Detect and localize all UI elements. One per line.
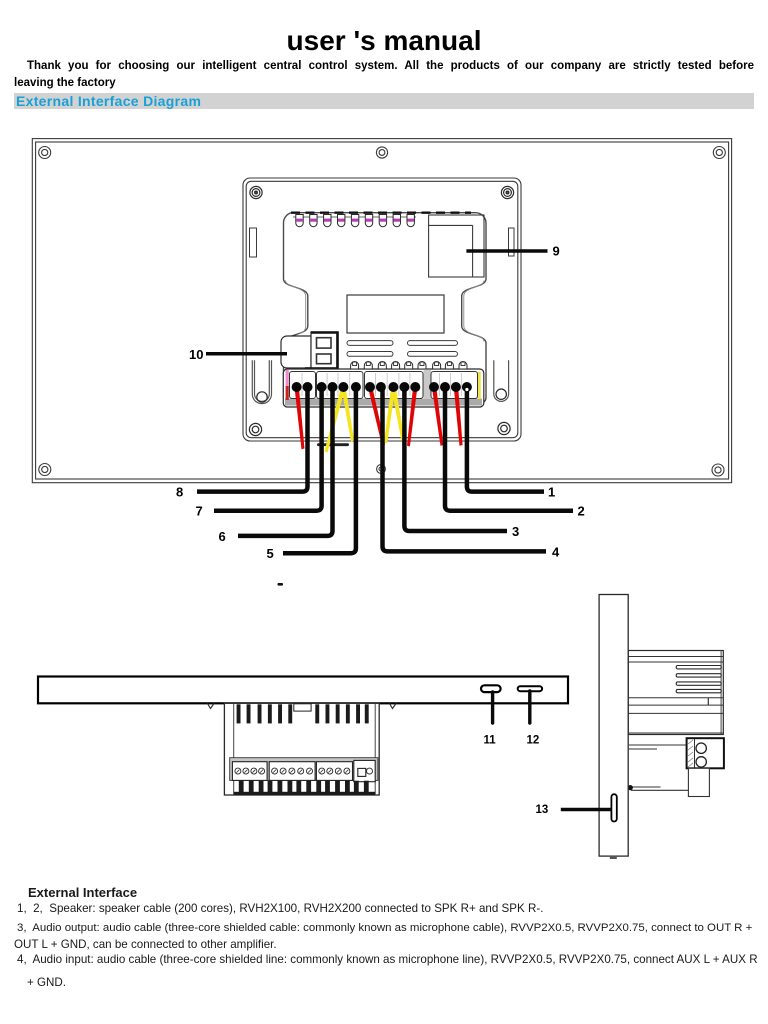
header pin row (9 pins with magenta bands) — [296, 215, 415, 227]
wire yellow terminal9 right strand — [391, 387, 404, 441]
outer wall panel — [32, 139, 731, 483]
bottom view: comb center key block — [294, 704, 311, 711]
item 3 audio output line 2 — [14, 938, 277, 951]
vent slot row2 right — [408, 352, 458, 357]
plate screw top-right — [501, 186, 513, 198]
wire yellow terminal9 left strand — [384, 387, 396, 444]
callout line 9 — [466, 249, 547, 253]
item 4 audio input line 1 — [17, 953, 758, 966]
bottom view: terminal screw slots — [236, 770, 348, 773]
side view: lower body lines — [629, 733, 723, 749]
terminal strip base — [283, 369, 484, 407]
section heading bar — [14, 93, 754, 109]
bottom text: External Interface heading — [28, 885, 137, 900]
component 9 box — [429, 215, 484, 277]
bottom view: top connector comb — [237, 704, 369, 723]
contour notch pocket right — [464, 281, 484, 342]
bottom view: right mounting hook — [390, 704, 397, 709]
bottom view: left mounting hook — [208, 704, 215, 709]
bottom view: terminal row base — [230, 758, 378, 781]
item 1,2 speaker — [17, 902, 543, 915]
side view: terminal screw upper — [696, 743, 706, 753]
bottom view: terminal screws — [235, 768, 373, 774]
terminal sub-block A — [290, 372, 316, 399]
svg-text:11: 11 — [484, 735, 497, 747]
side view: lower housing — [688, 768, 709, 796]
intro paragraph line 1 — [14, 60, 754, 72]
item 3 audio output line 1 — [17, 922, 752, 934]
terminal strip lower gray band — [285, 399, 482, 406]
mounting plate — [243, 178, 521, 441]
side view: wall panel — [599, 595, 628, 857]
screw 13 capsule — [611, 794, 616, 821]
bottom view: terminal block 3 — [316, 762, 352, 781]
svg-text:6: 6 — [219, 529, 226, 544]
block 10 socket square upper — [317, 338, 332, 348]
side view: terminal screw lower — [696, 757, 706, 767]
block 10 socket square lower — [317, 354, 332, 364]
wire yellow terminal5 right strand — [341, 387, 354, 442]
strip yellow lead — [478, 372, 481, 399]
bottom view: module bottom thick edge — [234, 792, 376, 795]
side view: terminal block — [687, 738, 724, 768]
header pins above strip — [351, 362, 467, 370]
terminal dots row — [292, 382, 461, 392]
panel screw top-middle — [376, 147, 387, 158]
central cutout rectangle — [347, 295, 444, 333]
wire yellow terminal5 left strand — [325, 387, 346, 453]
terminal separators — [302, 373, 461, 396]
side view: panel bottom tab — [610, 856, 617, 859]
contour inner top line — [293, 216, 416, 218]
wire red terminal14 — [454, 387, 463, 446]
strip pink lead — [286, 370, 289, 387]
svg-text:12: 12 — [527, 735, 540, 747]
side view: body inner right edge — [720, 651, 722, 735]
callout line 10 — [206, 352, 287, 356]
plate keyhole bracket right — [494, 360, 509, 401]
bottom view: chassis inner edges — [234, 703, 376, 795]
bottom view: terminal block 1 — [232, 762, 267, 781]
plate bottom clip tab — [317, 443, 349, 446]
button 11 stem — [491, 692, 494, 723]
panel screw bottom-right — [712, 464, 724, 476]
block 10 thick edges — [305, 333, 338, 369]
side view: terminal block clamp edge — [694, 739, 696, 768]
contour notch pocket left — [286, 281, 306, 334]
svg-text:4: 4 — [552, 544, 560, 559]
pin magenta bands — [296, 219, 414, 222]
bottom view: lower wire-entry comb — [239, 781, 369, 793]
svg-text:1: 1 — [548, 485, 555, 500]
plate slot right — [509, 228, 515, 256]
terminal dot 15 (ring) — [462, 382, 472, 392]
svg-text:13: 13 — [536, 804, 549, 816]
plate keyhole bracket left — [252, 360, 271, 403]
side view: terminal block hatch — [688, 740, 693, 767]
panel screw top-left — [39, 147, 51, 159]
callout line 13 — [561, 808, 612, 812]
rear cover contour with side notches — [283, 213, 486, 404]
touch button 11 — [481, 685, 501, 692]
terminal sub-block D — [431, 372, 478, 399]
bottom view: terminal block 4 — [354, 760, 375, 781]
bottom view: terminal block 2 — [269, 762, 315, 781]
stray dash mark — [278, 583, 284, 586]
terminal sub-block C — [365, 372, 424, 399]
svg-text:9: 9 — [553, 244, 560, 259]
svg-text:10: 10 — [189, 347, 203, 362]
plate screw bottom-left — [249, 423, 261, 435]
item 4 audio input line 2 — [27, 976, 66, 989]
bottom view: module chassis — [224, 703, 379, 795]
wire black terminal6 to callout 5 — [283, 387, 356, 554]
svg-text:3: 3 — [512, 524, 519, 539]
wire black terminal10 to callout 3 — [404, 387, 507, 532]
side view: seam tick — [707, 698, 709, 705]
wire black terminal4 to callout 6 — [238, 387, 333, 536]
panel screw bottom-middle — [377, 465, 386, 474]
wire black terminal8 to callout 4 — [383, 387, 547, 552]
bottom view: block4 square contact — [358, 768, 366, 776]
side view: catch bump — [628, 785, 633, 790]
wire black terminal13 to callout 2 — [445, 387, 573, 511]
title — [0, 25, 768, 57]
wire black terminal3 to callout 7 — [214, 387, 322, 511]
side view: lower outline — [629, 787, 688, 790]
side view: module body — [628, 651, 723, 735]
wire black terminal15 to callout 1 — [467, 387, 544, 492]
terminal sub-block B — [317, 372, 364, 399]
connector block 10 right half — [311, 332, 337, 368]
wire red terminal7 — [368, 387, 385, 446]
side view: body horizontal seams — [628, 657, 723, 714]
side view: heatsink fins — [676, 666, 721, 693]
wire red terminal1 — [294, 387, 304, 450]
svg-text:5: 5 — [267, 546, 274, 561]
wire red terminal12 — [432, 387, 444, 446]
plate slot left — [250, 228, 257, 257]
connector block 10 left half — [281, 336, 311, 368]
bottom view: front glass bar — [38, 677, 568, 704]
plate screw bottom-right — [498, 422, 510, 434]
svg-text:7: 7 — [196, 504, 203, 519]
vent slot row2 left — [347, 352, 393, 357]
intro paragraph line 2 — [14, 77, 116, 89]
panel screw bottom-left — [39, 464, 51, 476]
strip gap shading — [424, 370, 432, 399]
svg-text:2: 2 — [578, 504, 585, 519]
plate screw top-left — [250, 186, 262, 198]
button 12 stem — [528, 691, 531, 723]
svg-text:8: 8 — [176, 485, 183, 500]
contour top edge (dashed hidden line) — [291, 212, 471, 214]
wire black terminal2 to callout 8 — [197, 387, 308, 492]
vent slot row1 left — [347, 341, 393, 346]
vent slot row1 right — [408, 341, 458, 346]
panel screw top-right — [713, 147, 725, 159]
wire red terminal11 — [407, 387, 418, 447]
touch button 12 — [518, 686, 542, 691]
